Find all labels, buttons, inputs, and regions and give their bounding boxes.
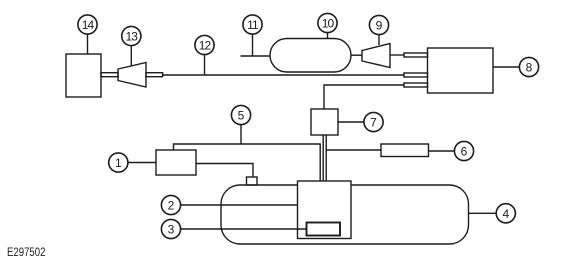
leader 4 (469, 212, 497, 214)
callout 4 (496, 204, 515, 223)
pipe stub top of 8 (404, 53, 428, 57)
svg-text:6: 6 (461, 145, 468, 159)
svg-text:9: 9 (376, 19, 383, 33)
svg-text:7: 7 (370, 116, 377, 130)
wire: valve 9 to stub (390, 54, 404, 56)
leader 10 (327, 33, 329, 39)
pipe from 13 to line 12 (146, 73, 163, 77)
callout 1 (109, 153, 128, 172)
leader 6 (429, 150, 455, 152)
wire: from box 1 to tank nipple (196, 164, 253, 178)
callout 7 (364, 112, 383, 131)
wire: pipe to filter 6 (326, 149, 381, 151)
component 8 (box) (428, 48, 494, 93)
pipe stub bottom of 8 (404, 83, 428, 87)
leader 3 (181, 228, 307, 230)
svg-text:E297502: E297502 (7, 246, 45, 259)
callout 9 (369, 15, 388, 34)
component 1 (box) (156, 150, 196, 175)
svg-text:13: 13 (126, 30, 139, 44)
svg-text:4: 4 (502, 207, 509, 221)
callout 8 (519, 57, 538, 76)
leader 8 (493, 66, 519, 68)
svg-text:11: 11 (247, 18, 259, 32)
canister 10 (capsule) (270, 39, 351, 73)
pump module 2 (box) (298, 181, 352, 239)
leader 5 (240, 125, 242, 144)
pipe stub middle of 8 (404, 73, 428, 77)
leader 13 (130, 46, 132, 66)
callout 10 (318, 13, 337, 32)
sender 3 (inner box) (307, 223, 341, 236)
svg-text:5: 5 (238, 109, 245, 123)
pipe from 14 to 13 (101, 73, 118, 77)
fuel tank 4 (rounded box) (221, 185, 469, 244)
leader 12 (204, 55, 206, 75)
svg-text:10: 10 (322, 17, 335, 31)
svg-text:2: 2 (168, 199, 175, 213)
tank nipple (247, 177, 258, 185)
callout 14 (78, 15, 97, 34)
filter 6 (box) (381, 144, 429, 157)
wire: from bottom stub to valve 7 (324, 85, 404, 109)
svg-text:12: 12 (199, 39, 212, 53)
svg-text:8: 8 (526, 61, 533, 75)
svg-text:14: 14 (82, 18, 95, 32)
leader 7 (338, 121, 364, 123)
svg-text:3: 3 (168, 223, 175, 237)
wire: filler line 11 (241, 55, 271, 57)
callout 13 (122, 26, 141, 45)
callout 3 (161, 219, 180, 238)
callout 11 (243, 15, 262, 34)
wire: line 5 into tank (174, 144, 321, 181)
callout 2 (161, 195, 180, 214)
venturi 13 (trapezoid) (118, 63, 146, 88)
pipe below 7 (twin vertical lines) (323, 135, 326, 181)
callout 6 (454, 141, 473, 160)
callout 5 (231, 105, 250, 124)
figure id E297502 (7, 246, 45, 259)
valve 7 (box) (311, 109, 338, 135)
leader 2 (181, 204, 298, 206)
wire: main line 12 (163, 74, 404, 76)
component 14 (box) (66, 54, 101, 97)
svg-text:1: 1 (115, 156, 122, 170)
callout 12 (195, 35, 214, 54)
leader 9 (378, 35, 380, 45)
leader 1 (128, 162, 156, 164)
leader 14 (87, 34, 89, 54)
leader 11 (252, 34, 254, 56)
valve 9 (trapezoid) (362, 44, 390, 68)
wire: canister to valve 9 (351, 54, 362, 56)
